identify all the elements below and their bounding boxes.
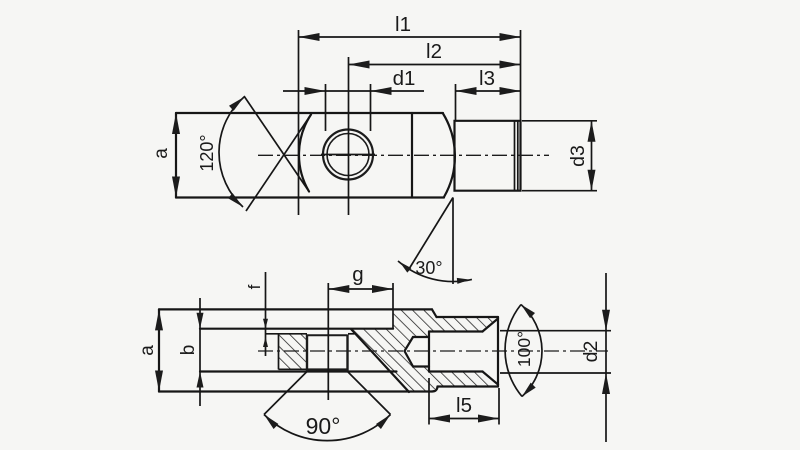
svg-text:l3: l3 [479, 67, 495, 90]
30 deg dimension arc [398, 261, 472, 282]
dimension b [199, 298, 201, 406]
countersink 90 lines [264, 372, 307, 415]
recess lip [266, 333, 308, 335]
120 deg dimension arc [219, 97, 244, 207]
svg-text:l5: l5 [456, 394, 472, 417]
dimension l5 [428, 378, 430, 425]
slot top edge [200, 328, 393, 330]
svg-text:a: a [151, 148, 172, 159]
dimension l1 [298, 30, 300, 215]
svg-text:g: g [352, 263, 363, 286]
svg-text:90°: 90° [306, 413, 341, 439]
countersink 100 lines [483, 319, 499, 332]
thread drill cone [405, 337, 414, 367]
hole horizontal centerline [321, 154, 375, 156]
recess pocket section (hatched) [279, 335, 307, 370]
dimension l2 [348, 57, 350, 215]
dimension g [392, 283, 394, 329]
svg-text:120°: 120° [197, 134, 217, 171]
svg-text:d3: d3 [567, 145, 589, 167]
svg-text:100°: 100° [514, 331, 534, 367]
slot end edge (top view) [411, 113, 413, 198]
threaded stub [455, 121, 521, 191]
svg-text:f: f [245, 284, 264, 289]
svg-text:a: a [137, 345, 158, 356]
dimension l3 [455, 84, 457, 121]
dimension a (section) [155, 309, 163, 330]
dimension d1 [325, 84, 327, 131]
dimension a (top view) [172, 113, 180, 134]
thread runout double line [514, 121, 516, 191]
main centerline (top view) [258, 154, 549, 156]
part body (top view) [176, 112, 443, 114]
svg-text:l1: l1 [395, 13, 411, 36]
svg-text:d2: d2 [580, 341, 602, 363]
svg-text:d1: d1 [393, 67, 416, 90]
thread minor lines [413, 336, 429, 338]
hatched section area [351, 309, 498, 391]
dimension d2 [500, 330, 611, 332]
svg-text:l2: l2 [426, 40, 442, 63]
30 deg reference lines [452, 198, 454, 285]
100 deg dimension arcs [505, 305, 522, 397]
slot bottom edge [200, 370, 397, 372]
dimension f [265, 272, 267, 356]
section centerline [258, 350, 608, 352]
pin hole section (square) [306, 335, 308, 372]
svg-text:b: b [178, 345, 199, 356]
thread channel cutout [405, 319, 499, 385]
thread start vertical [428, 332, 430, 372]
part body (section view) outline [158, 309, 160, 391]
hole inner circle [327, 134, 369, 176]
svg-text:30°: 30° [415, 258, 442, 278]
eye face arc [299, 115, 311, 192]
thread major lines [429, 330, 483, 332]
90 deg dimension arc [264, 415, 391, 441]
hole vertical centerline [327, 283, 329, 400]
slot end diagonal [351, 329, 409, 392]
cone chamfer lines (X) [244, 96, 309, 192]
dimension d3 [522, 120, 597, 122]
hole (eye) outer circle [323, 130, 373, 180]
